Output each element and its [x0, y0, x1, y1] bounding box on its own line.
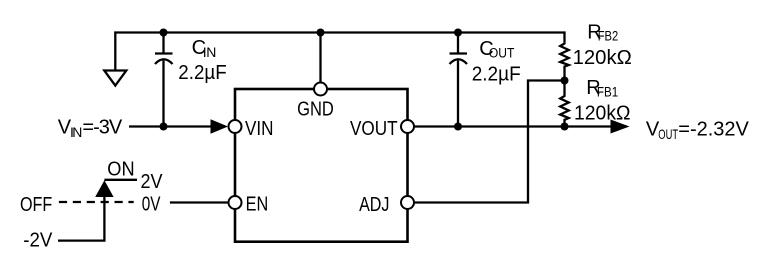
svg-text:VIN=-3V: VIN=-3V: [58, 117, 123, 140]
wire VIN input: [129, 125, 211, 127]
svg-text:VOUT: VOUT: [350, 118, 398, 140]
pin GND: [314, 83, 327, 96]
capacitor CIN lead top: [162, 33, 164, 54]
pin ADJ: [401, 196, 414, 209]
svg-text:VIN: VIN: [245, 118, 274, 140]
svg-text:120kΩ: 120kΩ: [573, 47, 632, 69]
waveform -2V step: [58, 197, 104, 241]
svg-text:ON: ON: [107, 159, 134, 181]
wire VOUT output: [414, 125, 611, 127]
pin VOUT: [401, 120, 414, 133]
junction dot rail CIN: [160, 29, 168, 37]
svg-text:120kΩ: 120kΩ: [574, 102, 631, 124]
junction dot VOUT line RFB1: [561, 123, 569, 131]
wire ADJ feedback: [414, 81, 561, 203]
capacitor COUT plates: [450, 54, 468, 65]
pin EN: [229, 196, 242, 209]
svg-text:ADJ: ADJ: [359, 194, 389, 216]
capacitor CIN lead bottom: [162, 61, 164, 127]
resistor RFB1 zigzag: [560, 81, 569, 127]
svg-text:FB1: FB1: [597, 84, 618, 100]
svg-text:-2V: -2V: [23, 229, 53, 251]
svg-text:OUT: OUT: [658, 126, 678, 142]
svg-text:EN: EN: [246, 194, 269, 216]
waveform 2V level: [104, 179, 137, 181]
junction dot rail COUT: [454, 29, 462, 37]
arrowhead EN waveform up: [95, 180, 113, 197]
svg-text:OUT: OUT: [489, 45, 514, 61]
arrowhead VIN: [211, 119, 229, 134]
waveform OFF dashed: [59, 201, 134, 203]
wire top rail: [115, 33, 564, 71]
junction dot node FB (RFB1/RFB2): [561, 77, 569, 85]
svg-text:2.2µF: 2.2µF: [178, 62, 226, 84]
pin VIN: [229, 120, 242, 133]
capacitor COUT lead top: [457, 33, 459, 54]
svg-text:2V: 2V: [141, 171, 164, 193]
junction dot VOUT line COUT: [454, 123, 462, 131]
capacitor COUT lead bottom: [457, 61, 459, 127]
junction dot VIN line: [160, 123, 168, 131]
capacitor CIN plates: [155, 54, 173, 65]
svg-text:2.2µF: 2.2µF: [472, 63, 521, 85]
svg-text:OFF: OFF: [20, 194, 52, 216]
resistor RFB2 zigzag: [560, 42, 569, 80]
junction dot top GND: [317, 29, 325, 37]
svg-text:GND: GND: [297, 98, 334, 120]
arrowhead VOUT: [611, 120, 630, 134]
wire EN input: [170, 201, 229, 203]
ground: [104, 71, 126, 86]
wire GND drop: [319, 33, 321, 83]
regulator U1 body: [235, 89, 408, 242]
svg-text:0V: 0V: [142, 194, 161, 216]
svg-text:FB2: FB2: [598, 28, 619, 43]
